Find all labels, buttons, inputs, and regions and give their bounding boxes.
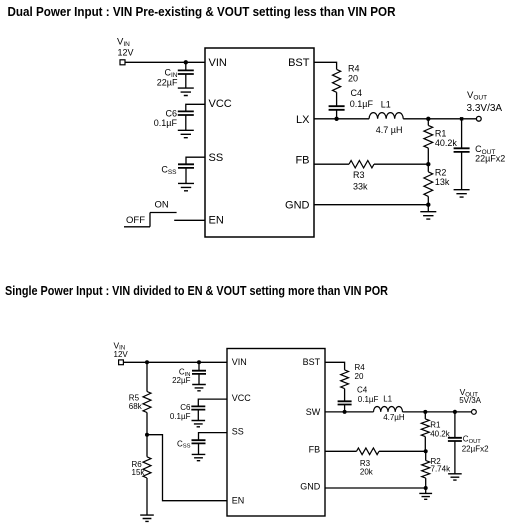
svg-text:C4: C4 (357, 386, 368, 395)
svg-text:R1: R1 (435, 129, 447, 139)
svg-text:20: 20 (355, 372, 364, 381)
svg-text:FB: FB (309, 444, 321, 454)
svg-text:SS: SS (232, 427, 244, 437)
svg-text:R4: R4 (355, 363, 366, 372)
svg-text:VIN: VIN (232, 357, 247, 367)
svg-text:12V: 12V (114, 350, 129, 359)
svg-text:OFF: OFF (126, 215, 145, 226)
svg-text:0.1µF: 0.1µF (358, 395, 379, 404)
svg-text:0.1µF: 0.1µF (350, 99, 374, 109)
svg-text:R1: R1 (430, 421, 441, 430)
svg-text:FB: FB (295, 154, 309, 166)
svg-text:22µFx2: 22µFx2 (475, 153, 505, 163)
svg-text:4.7µH: 4.7µH (383, 413, 405, 422)
svg-text:VCC: VCC (232, 393, 252, 403)
svg-text:SS: SS (209, 152, 224, 164)
svg-text:40.2k: 40.2k (430, 429, 451, 438)
svg-text:20: 20 (348, 73, 358, 83)
svg-text:22µF: 22µF (172, 376, 191, 385)
svg-text:0.1µF: 0.1µF (170, 412, 191, 421)
svg-text:7.74k: 7.74k (431, 465, 452, 474)
svg-text:VIN: VIN (209, 57, 227, 69)
svg-text:SW: SW (306, 407, 321, 417)
svg-text:5V/3A: 5V/3A (459, 396, 481, 405)
svg-text:GND: GND (300, 482, 321, 492)
svg-text:BST: BST (288, 57, 310, 69)
svg-text:4.7 µH: 4.7 µH (376, 125, 403, 135)
svg-text:VCC: VCC (209, 98, 232, 110)
svg-text:3.3V/3A: 3.3V/3A (467, 103, 503, 114)
svg-text:15k: 15k (132, 468, 146, 477)
svg-text:0.1µF: 0.1µF (154, 118, 178, 128)
svg-text:R2: R2 (435, 168, 447, 178)
svg-text:C4: C4 (351, 88, 363, 98)
svg-text:L1: L1 (383, 394, 392, 403)
svg-text:22µF: 22µF (157, 77, 178, 87)
svg-text:40.2k: 40.2k (435, 138, 458, 148)
svg-text:13k: 13k (435, 177, 450, 187)
svg-text:ON: ON (155, 199, 169, 210)
svg-text:R4: R4 (348, 63, 360, 73)
svg-text:Dual Power Input : VIN Pre-exi: Dual Power Input : VIN Pre-existing & VO… (8, 4, 397, 19)
svg-text:Single Power Input : VIN divid: Single Power Input : VIN divided to EN &… (5, 284, 388, 298)
svg-text:20k: 20k (360, 468, 374, 477)
svg-text:EN: EN (232, 495, 245, 505)
svg-text:68k: 68k (129, 402, 143, 411)
svg-text:C6: C6 (165, 109, 177, 119)
svg-text:LX: LX (296, 114, 310, 126)
svg-text:BST: BST (303, 357, 321, 367)
svg-text:33k: 33k (353, 181, 368, 191)
svg-text:12V: 12V (118, 48, 134, 58)
svg-text:GND: GND (285, 199, 310, 211)
svg-text:L1: L1 (381, 99, 391, 109)
svg-text:C6: C6 (180, 403, 191, 412)
svg-text:R3: R3 (360, 459, 371, 468)
svg-text:R3: R3 (353, 170, 365, 180)
svg-text:EN: EN (209, 214, 224, 226)
svg-text:22µFx2: 22µFx2 (462, 445, 489, 454)
